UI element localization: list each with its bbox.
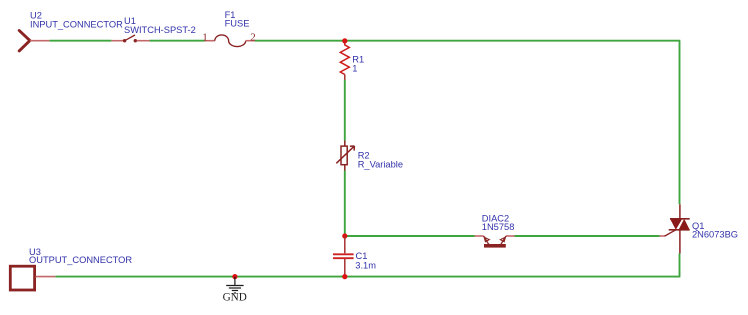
wire vertical between R2 and middle node <box>344 170 346 236</box>
output connector U3 <box>10 266 55 290</box>
svg-text:OUTPUT_CONNECTOR: OUTPUT_CONNECTOR <box>29 255 132 265</box>
svg-text:FUSE: FUSE <box>225 19 250 29</box>
svg-text:1: 1 <box>352 63 357 73</box>
wire top from switch to fuse <box>150 40 205 42</box>
variable resistor R2 <box>336 141 354 171</box>
node junction at R2 bottom <box>342 233 347 238</box>
wire middle from R2 node to diac <box>345 235 475 237</box>
wire top from input connector to switch <box>49 40 111 42</box>
wire bottom from output connector to triac <box>55 276 680 278</box>
wire vertical between R1 and R2 <box>344 80 346 141</box>
svg-text:SWITCH-SPST-2: SWITCH-SPST-2 <box>124 25 196 35</box>
svg-text:2: 2 <box>250 31 256 43</box>
resistor R1 <box>340 41 349 80</box>
svg-text:INPUT_CONNECTOR: INPUT_CONNECTOR <box>30 19 123 29</box>
wire middle from diac to triac gate <box>515 235 660 237</box>
node junction at R1 top <box>342 38 347 43</box>
svg-text:1: 1 <box>202 32 208 44</box>
fuse F1 <box>205 35 255 47</box>
svg-text:1N5758: 1N5758 <box>482 222 515 232</box>
capacitor C1 <box>333 236 354 277</box>
triac Q1 <box>660 204 690 253</box>
wire right vertical lower <box>679 254 681 277</box>
ground <box>226 277 243 293</box>
node junction at C1 bottom <box>342 274 347 279</box>
svg-text:R_Variable: R_Variable <box>358 160 403 170</box>
svg-text:3.1m: 3.1m <box>355 260 376 270</box>
wire right vertical upper <box>679 41 681 205</box>
svg-text:2N6073BG: 2N6073BG <box>692 230 738 240</box>
svg-text:GND: GND <box>223 292 247 304</box>
diac DIAC2 <box>475 236 515 248</box>
input connector U2 <box>19 31 49 51</box>
node junction at GND <box>232 274 237 279</box>
wire top from fuse to right corner <box>255 40 681 42</box>
switch U1 <box>111 35 149 42</box>
